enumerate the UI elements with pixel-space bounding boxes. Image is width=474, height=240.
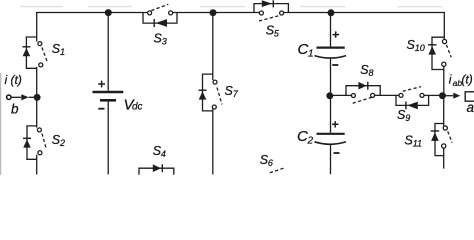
label i(t) (5, 73, 22, 87)
switch S7 (199, 74, 223, 111)
wire: node M to C2 (330, 99, 332, 133)
switch S8 (346, 82, 380, 104)
svg-text:5: 5 (274, 28, 280, 38)
node: top rail / capacitor branch junction (328, 9, 335, 16)
switch S1 (22, 37, 47, 68)
wire: S1 branch top (36, 12, 38, 42)
label S11 (405, 133, 423, 148)
svg-text:1: 1 (60, 47, 65, 57)
switch S5 (254, 0, 288, 21)
node: top rail / Vdc branch junction (105, 9, 112, 16)
label S9 (397, 108, 410, 123)
label iab(t) (449, 73, 473, 88)
C1 plus sign (333, 31, 340, 37)
wire: S9 to node a (424, 94, 440, 96)
svg-text:a: a (467, 100, 474, 115)
node M junction (C1/C2/S8) (326, 92, 333, 99)
svg-text:2: 2 (307, 136, 314, 147)
wire: Vdc branch top (107, 13, 109, 91)
current arrow iab(t) (453, 93, 460, 99)
svg-text:9: 9 (405, 113, 410, 123)
svg-text:dc: dc (132, 102, 143, 113)
output terminal a square (465, 92, 474, 101)
switch S10 (428, 37, 451, 69)
wire: S7 branch bottom (212, 109, 214, 175)
wire: rail to C1 (330, 13, 332, 47)
label S7 (225, 84, 239, 99)
label C1 (298, 41, 314, 60)
svg-text:8: 8 (369, 68, 374, 78)
wire: Vdc branch bottom (107, 102, 109, 175)
label C2 (297, 128, 314, 147)
battery minus sign (98, 108, 104, 110)
label a (467, 100, 474, 115)
faint bleed dashes near top edge (20, 6, 442, 8)
wire: S8 to S9 (375, 94, 399, 96)
faint left border line (0, 73, 2, 175)
wire: top rail right segment (284, 12, 445, 14)
C2 plus sign (332, 121, 339, 127)
input terminal b circle (7, 95, 11, 99)
wire: node M to S8 (333, 94, 352, 96)
wire: S1 to node b (36, 67, 38, 95)
C1 minus sign (332, 64, 338, 66)
node a junction (439, 92, 446, 99)
svg-text:2: 2 (59, 138, 65, 148)
label S6 (260, 153, 273, 168)
switch S6 (partial, bottom edge blade) (270, 168, 285, 173)
label S3 (154, 31, 167, 46)
wire: terminal to arrow (11, 96, 21, 98)
switch S4 (partial, bottom edge) (139, 164, 174, 175)
C2 minus sign (334, 152, 340, 154)
switch S2 (23, 126, 46, 159)
label b (11, 102, 19, 117)
switch S3 (143, 4, 177, 27)
svg-text:i (t): i (t) (5, 73, 22, 87)
wire: C1 to node M (330, 59, 332, 93)
capacitor C2 (315, 134, 347, 145)
svg-text:C: C (298, 41, 309, 58)
switch S9 (396, 87, 429, 110)
switch S11 (431, 124, 453, 156)
wire: node b to S2 (36, 101, 38, 128)
node b junction (34, 94, 41, 101)
battery Vdc (93, 92, 124, 100)
node: top rail / S7 branch junction (210, 9, 217, 16)
wire: C2 to bottom edge (330, 145, 332, 174)
svg-text:(t): (t) (461, 73, 472, 87)
svg-text:i: i (449, 73, 452, 87)
label S8 (360, 63, 373, 78)
label S1 (52, 42, 65, 57)
label S2 (52, 133, 65, 148)
svg-text:b: b (11, 102, 19, 117)
label S5 (266, 23, 280, 38)
label Vdc (124, 97, 143, 114)
current arrow i(t) (21, 94, 28, 100)
wire: S10 to node a (443, 66, 445, 92)
svg-text:11: 11 (413, 138, 422, 148)
svg-text:4: 4 (161, 149, 166, 159)
svg-text:10: 10 (415, 43, 425, 53)
capacitor C1 (315, 48, 347, 59)
svg-text:3: 3 (162, 37, 167, 47)
wire: S11 to bottom (443, 148, 445, 169)
wire: node a to output arrow (446, 95, 454, 97)
battery plus sign (98, 81, 105, 88)
wire: top rail left segment (37, 12, 148, 14)
label S10 (407, 38, 425, 53)
label S4 (153, 144, 166, 159)
svg-text:C: C (297, 128, 308, 145)
wire: S2 to bottom edge (36, 155, 38, 175)
svg-text:6: 6 (268, 158, 273, 168)
svg-text:1: 1 (308, 49, 314, 60)
svg-text:7: 7 (233, 89, 239, 99)
wire: node a to S11 (443, 99, 445, 126)
wire: top rail middle segment (173, 12, 260, 14)
wire: arrow to node b (29, 96, 34, 98)
wire: S7 branch top (212, 13, 214, 81)
wire: top rail corner down to S10 (443, 12, 445, 40)
